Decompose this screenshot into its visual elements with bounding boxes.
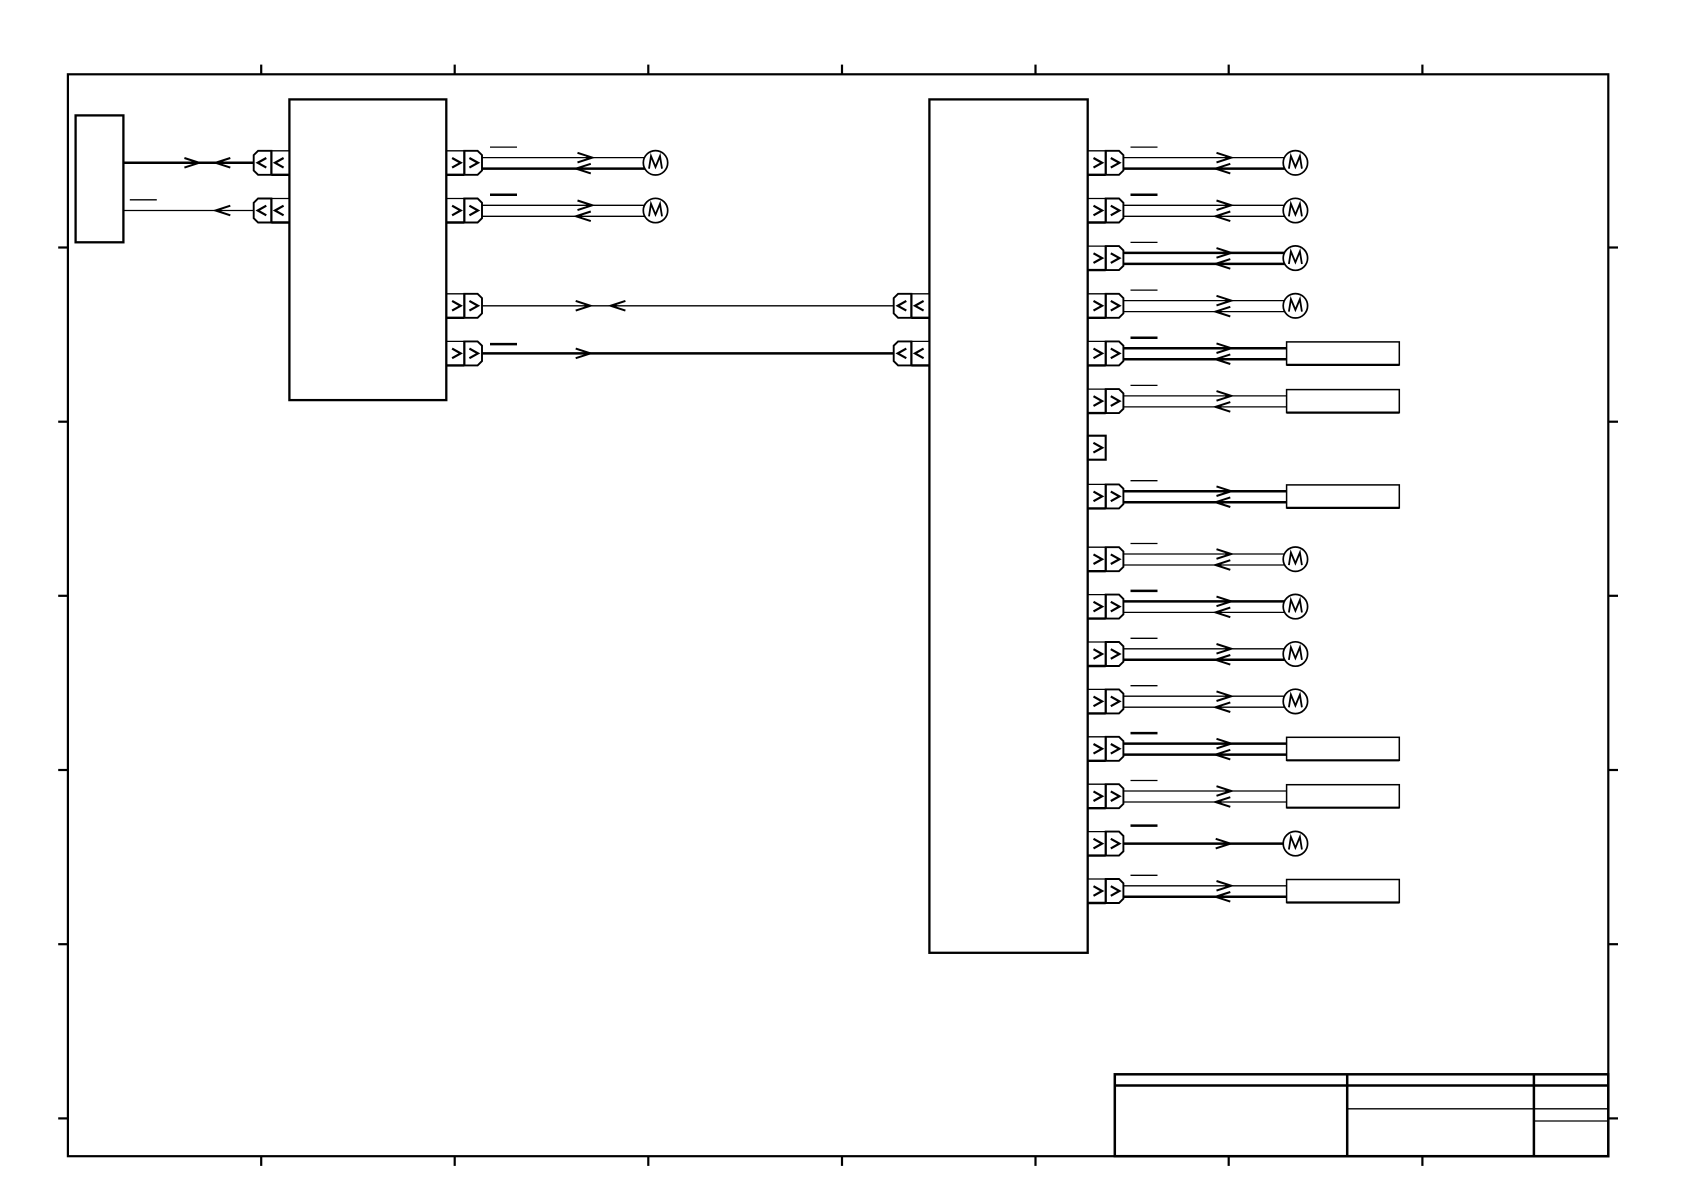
connector A2-X2 pin13 (>>) bbox=[1088, 737, 1124, 761]
wire A1 to A2 supply line (thick) bbox=[482, 352, 894, 355]
wire A1 to A2 data line (thin) bbox=[482, 305, 894, 307]
wire pair A2 to R5 bbox=[1123, 790, 1286, 792]
wire label dash bbox=[1131, 289, 1158, 291]
connector A1-X1 pin1 (<<) bbox=[254, 151, 290, 175]
wire label dash bbox=[1131, 874, 1158, 876]
wire label dash bbox=[1131, 685, 1158, 687]
motor M3 bbox=[1283, 151, 1307, 175]
wire pair A2 to R6 return bbox=[1123, 896, 1286, 899]
connector A2-X2 pin14 (>>) bbox=[1088, 784, 1124, 808]
wire pair A2 to R1 bbox=[1123, 347, 1286, 350]
wire pair A2 to M3 bbox=[1123, 157, 1284, 159]
connector A2-X2 pin9 (>>) bbox=[1088, 547, 1124, 571]
motor M10 bbox=[1283, 689, 1307, 713]
load resistor R3 bbox=[1287, 485, 1400, 508]
connector A2-X2 pin12 (>>) bbox=[1088, 689, 1124, 713]
wire label dash bbox=[490, 343, 517, 346]
connector A1-X2 pin3 (>>) bbox=[446, 294, 482, 318]
wire label dash bbox=[1131, 336, 1158, 339]
connector A1-X1 pin2 (<<) bbox=[254, 199, 290, 223]
wire pair A2 to M5 return bbox=[1123, 263, 1284, 266]
motor M11 bbox=[1283, 831, 1307, 855]
motor M9 bbox=[1283, 642, 1307, 666]
wire pair A2 to M8 return bbox=[1123, 611, 1284, 613]
wire label dash bbox=[1131, 480, 1158, 482]
wire pair A2 to R2 return bbox=[1123, 406, 1286, 408]
wire label dash bbox=[1131, 732, 1158, 735]
wire pair A1 to M2 return bbox=[482, 215, 645, 217]
wire pair A2 to M10 return bbox=[1123, 706, 1284, 708]
motor M8 bbox=[1283, 594, 1307, 618]
load resistor R1 bbox=[1287, 342, 1400, 365]
wire pair A2 to R2 bbox=[1123, 395, 1286, 397]
wire label dash bbox=[1131, 543, 1158, 545]
wire label dash bbox=[1131, 780, 1158, 782]
connector A2-X2 pin1 (>>) bbox=[1088, 151, 1124, 175]
load resistor R5 bbox=[1287, 785, 1400, 808]
motor M1 bbox=[643, 151, 667, 175]
connector A2-X2 pin4 (>>) bbox=[1088, 294, 1124, 318]
wire pair A2 to M9 return bbox=[1123, 659, 1284, 662]
wire label dash bbox=[1131, 241, 1158, 243]
wire pair A2 to R1 return bbox=[1123, 358, 1286, 361]
wire label dash bbox=[1131, 194, 1158, 197]
connector A2-X2 pin5 (>>) bbox=[1088, 341, 1124, 365]
wire pair A2 to R3 return bbox=[1123, 501, 1286, 504]
motor M5 bbox=[1283, 246, 1307, 270]
load resistor R2 bbox=[1287, 390, 1400, 413]
wire pair A2 to M7 return bbox=[1123, 564, 1284, 566]
wire pair A2 to R4 return bbox=[1123, 753, 1286, 756]
wire label dash bbox=[490, 146, 517, 148]
wire label dash bbox=[130, 199, 157, 201]
wire label dash bbox=[1131, 590, 1158, 593]
wire pair A2 to R3 bbox=[1123, 490, 1286, 493]
wire pair A2 to M3 return bbox=[1123, 167, 1284, 170]
wire A2 to motor (single, thick) bbox=[1123, 842, 1284, 845]
control module A2 bbox=[929, 99, 1087, 952]
power source G1 bbox=[76, 115, 124, 242]
wire pair A1 to M1 return bbox=[482, 167, 645, 170]
title block bbox=[1115, 1074, 1609, 1156]
wire label dash bbox=[1131, 146, 1158, 148]
motor M4 bbox=[1283, 198, 1307, 222]
connector A2-X2 pin11 (>>) bbox=[1088, 642, 1124, 666]
motor M6 bbox=[1283, 294, 1307, 318]
wire G1 to A1 pin2 (thin) bbox=[123, 210, 253, 212]
connector A2-X1 pin2 (<<) bbox=[894, 341, 930, 365]
motor M2 bbox=[643, 198, 667, 222]
control module A1 bbox=[289, 99, 446, 400]
connector A2-X2 pin2 (>>) bbox=[1088, 199, 1124, 223]
connector A1-X2 pin1 (>>) bbox=[446, 151, 482, 175]
connector A2-X2 pin6 (>>) bbox=[1088, 389, 1124, 413]
connector A2-X2 pin15 (>>) bbox=[1088, 832, 1124, 856]
wire G1 to A1 pin1 (thick) bbox=[123, 162, 253, 165]
wire pair A1 to M1 bbox=[482, 157, 645, 159]
wire pair A2 to M10 bbox=[1123, 695, 1284, 697]
connector A2-X1 pin1 (<<) bbox=[894, 294, 930, 318]
wire pair A2 to M4 bbox=[1123, 204, 1284, 206]
connector A2-X2 pin8 (>>) bbox=[1088, 484, 1124, 508]
load resistor R6 bbox=[1287, 880, 1400, 903]
wire pair A2 to R4 bbox=[1123, 742, 1286, 745]
connector A1-X2 pin4 (>>) bbox=[446, 341, 482, 365]
wire pair A2 to M8 bbox=[1123, 600, 1284, 603]
connector A2-X2 pin7 single cell (>) bbox=[1088, 436, 1106, 460]
wire label dash bbox=[1131, 824, 1158, 827]
wire pair A1 to M2 bbox=[482, 204, 645, 206]
wire pair A2 to M4 return bbox=[1123, 215, 1284, 217]
connector A1-X2 pin2 (>>) bbox=[446, 199, 482, 223]
wire pair A2 to M9 bbox=[1123, 648, 1284, 650]
wire label dash bbox=[1131, 384, 1158, 386]
connector A2-X2 pin16 (>>) bbox=[1088, 879, 1124, 903]
wire pair A2 to M5 bbox=[1123, 252, 1284, 255]
wire pair A2 to M6 bbox=[1123, 300, 1284, 302]
motor M7 bbox=[1283, 547, 1307, 571]
wire pair A2 to M6 return bbox=[1123, 311, 1284, 313]
wire pair A2 to R5 return bbox=[1123, 801, 1286, 803]
connector A2-X2 pin10 (>>) bbox=[1088, 595, 1124, 619]
load resistor R4 bbox=[1287, 737, 1400, 760]
connector A2-X2 pin3 (>>) bbox=[1088, 246, 1124, 270]
wire label dash bbox=[1131, 637, 1158, 639]
wire label dash bbox=[490, 194, 517, 197]
wire pair A2 to R6 bbox=[1123, 885, 1286, 887]
wire pair A2 to M7 bbox=[1123, 553, 1284, 555]
